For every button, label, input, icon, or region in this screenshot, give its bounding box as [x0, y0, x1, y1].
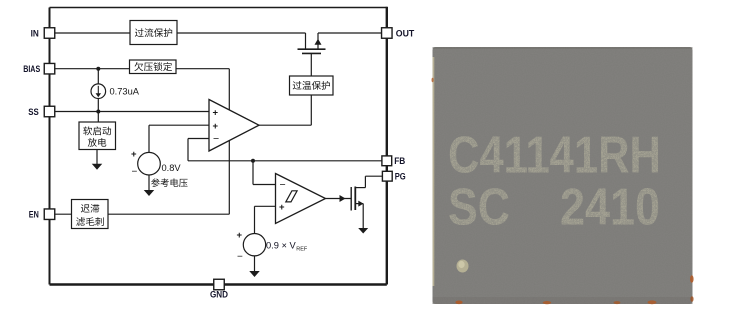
block: hysteresis deglitch 迟滞/滤毛刺: [72, 200, 109, 229]
svg-text:−: −: [213, 133, 219, 145]
voltage source 0.8V reference: [131, 149, 160, 177]
chip pin-1 dot: [457, 260, 469, 273]
svg-text:SS: SS: [28, 107, 39, 117]
wire 0.9Vref to ground: [254, 256, 256, 272]
chip photo: QFN package: [433, 47, 693, 304]
ground (Q2 source): [358, 228, 368, 234]
svg-text:0.73uA: 0.73uA: [110, 87, 140, 97]
wire thermal block to error amp output: [259, 95, 311, 125]
svg-text:−: −: [237, 251, 243, 262]
svg-text:EN: EN: [29, 210, 39, 220]
svg-text:BIAS: BIAS: [23, 64, 40, 74]
svg-text:2410: 2410: [560, 179, 660, 237]
wire drain to OUT pin: [318, 32, 382, 34]
wire comparator output to Q2 gate: [326, 195, 352, 202]
wire error amp - input loop to FB line: [188, 139, 209, 161]
transistor Q2 (PG open-drain NMOS): [351, 176, 365, 228]
junction: FB / comparator tap: [251, 159, 255, 163]
wire FB tap down to comparator - input: [253, 161, 276, 185]
svg-text:0.8V: 0.8V: [162, 163, 182, 173]
svg-text:PG: PG: [395, 172, 406, 182]
wire overcurrent block to pass transistor source: [177, 32, 306, 34]
voltage source 0.9x Vref: [237, 230, 266, 262]
IC boundary box: [50, 7, 387, 285]
svg-text:C41141RH: C41141RH: [448, 127, 661, 185]
wire BIAS to UVLO block: [55, 68, 130, 70]
svg-text:+: +: [213, 121, 219, 132]
pin BIAS: [23, 63, 55, 74]
junction: SS / soft start: [96, 110, 100, 114]
pin FB: [382, 156, 406, 166]
svg-text:0.9 × V: 0.9 × V: [266, 240, 297, 250]
label 0.73uA: [110, 87, 140, 97]
current source I1 0.73uA: [91, 84, 106, 99]
label 0.8V 参考电压: [151, 163, 187, 187]
wire SS to error amp + input: [55, 111, 209, 113]
chip marking line 2: SC 2410: [448, 179, 660, 237]
wire UVLO block right to vertical: [176, 68, 229, 70]
svg-text:−: −: [132, 166, 138, 177]
svg-text:OUT: OUT: [396, 28, 415, 38]
chip solder pad glints (orange spots): [432, 78, 694, 304]
block: overcurrent protection 过流保护: [130, 21, 177, 45]
pin GND: [210, 279, 228, 299]
svg-text:+: +: [131, 149, 137, 160]
wire IN to overcurrent block: [55, 32, 130, 34]
wire 0.9Vref to comparator + input: [255, 206, 276, 233]
wire current source to SS rail: [97, 99, 99, 112]
chip marking line 1: C41141RH: [448, 127, 661, 185]
transistor Q1 (pass PMOS): [298, 33, 326, 76]
wire: UVLO output down to EN logic (vertical, passes behind op-amp): [228, 69, 230, 215]
pin PG: [382, 171, 405, 181]
wire EN to deglitch block: [55, 213, 72, 215]
svg-text:−: −: [280, 179, 286, 191]
wire Q2 drain to PG pin: [365, 175, 382, 177]
ground (0.9Vref): [249, 271, 260, 277]
ground (0.8V ref): [144, 190, 155, 196]
svg-text:REF: REF: [296, 247, 308, 253]
ground (soft start): [92, 164, 103, 170]
wire BIAS junction down to current source: [97, 69, 99, 84]
svg-text:+: +: [279, 202, 285, 213]
svg-text:FB: FB: [394, 156, 405, 166]
comparator U2 (power good, with hysteresis): [276, 174, 326, 224]
op-amp U1 (error amplifier): [209, 100, 259, 152]
svg-text:+: +: [237, 230, 243, 241]
pin SS: [28, 106, 54, 117]
junction: BIAS / current source: [96, 67, 100, 71]
pin EN: [29, 209, 55, 220]
pin OUT: [382, 28, 415, 39]
svg-text:IN: IN: [31, 28, 40, 38]
block: undervoltage lockout 欠压锁定: [130, 60, 177, 74]
wire junction down to soft start block: [97, 112, 99, 123]
block: soft start discharge 软启动/放电: [79, 122, 116, 150]
wire 0.8V ref to error amp + input: [149, 125, 209, 152]
svg-text:GND: GND: [210, 289, 228, 299]
wire soft start block to ground: [96, 150, 98, 165]
wire FB line: [188, 160, 382, 162]
svg-text:SC: SC: [448, 179, 510, 237]
block: thermal protection 过温保护: [290, 76, 334, 95]
svg-text:+: +: [213, 108, 219, 119]
pin IN: [31, 28, 55, 39]
wire 0.8V ref to ground: [148, 175, 150, 191]
wire deglitch block to EN logic vertical: [108, 213, 229, 215]
label 0.9 x VREF: [266, 240, 308, 252]
